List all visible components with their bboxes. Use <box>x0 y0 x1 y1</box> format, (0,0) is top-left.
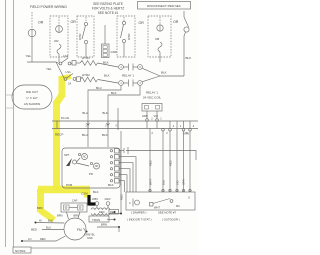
svg-text:RECP: RECP <box>55 133 63 137</box>
svg-text:BLK: BLK <box>108 183 114 187</box>
svg-text:BLU: BLU <box>83 111 88 115</box>
svg-text:VIO: VIO <box>154 114 158 118</box>
svg-text:RELAY 1: RELAY 1 <box>122 74 134 78</box>
svg-text:O: O <box>188 196 190 200</box>
wire to plug pin <box>117 108 119 130</box>
svg-text:208V: 208V <box>92 197 98 201</box>
svg-text:CAP: CAP <box>72 199 78 203</box>
svg-text:BLK: BLK <box>93 190 99 194</box>
fuse FU1 (L1 feed) <box>31 12 33 29</box>
svg-text:BLU: BLU <box>82 133 88 137</box>
svg-text:GRN: GRN <box>142 114 148 118</box>
svg-text:RED: RED <box>120 194 124 200</box>
svg-text:YEL: YEL <box>26 54 32 58</box>
svg-text:HTR1: HTR1 <box>82 56 90 60</box>
svg-text:BLK: BLK <box>104 74 110 78</box>
svg-text:RED: RED <box>40 237 46 241</box>
svg-text:1" X 1/2": 1" X 1/2" <box>26 96 38 100</box>
die cut note <box>12 85 52 109</box>
contact NC <box>78 153 80 155</box>
svg-text:BLK: BLK <box>186 56 192 60</box>
svg-text:GRN: GRN <box>183 132 189 136</box>
svg-text:RED: RED <box>99 210 105 214</box>
contact NO <box>90 162 92 164</box>
relay 1 contact row 1 <box>119 65 124 70</box>
svg-text:FM: FM <box>77 228 82 232</box>
svg-text:FOR VOLTS & HERTZ: FOR VOLTS & HERTZ <box>92 7 124 11</box>
motor ground GRN/YEL GND <box>86 231 88 233</box>
svg-text:PCB: PCB <box>66 183 72 187</box>
wire RED secondary <box>109 210 119 215</box>
wire highlighted yellow L1 circuit trace <box>38 76 90 220</box>
alternate box: fuse OR circuit breaker CB <box>50 16 68 57</box>
node split to LS2/LS1 <box>56 62 64 78</box>
svg-text:RED: RED <box>169 160 173 166</box>
svg-text:COM: COM <box>81 192 88 196</box>
svg-text:OR: OR <box>173 20 179 24</box>
notes box <box>13 247 31 253</box>
svg-text:YEL: YEL <box>46 67 52 71</box>
wire BLK tap <box>108 85 140 147</box>
svg-text:24 VDC COIL: 24 VDC COIL <box>143 96 162 100</box>
svg-text:HTR2: HTR2 <box>82 73 90 77</box>
svg-text:VIO: VIO <box>176 181 180 185</box>
svg-text:DISC: DISC <box>78 33 82 40</box>
bold wire to transformer common <box>89 195 96 206</box>
control board PCB <box>62 148 120 188</box>
svg-text:PR: PR <box>89 172 93 176</box>
svg-text:BLK: BLK <box>161 71 167 75</box>
svg-text:BLU: BLU <box>46 226 51 230</box>
svg-text:HI: HI <box>39 219 42 223</box>
svg-text:( DAMPER ): ( DAMPER ) <box>131 211 146 215</box>
svg-text:NOTES: NOTES <box>15 249 25 253</box>
svg-text:MED: MED <box>31 228 37 232</box>
plug pin chevrons <box>87 123 110 126</box>
page margin rule outer <box>5 0 7 247</box>
rotated wire labels <box>149 160 186 185</box>
control box (thermostat circuit) <box>126 192 195 210</box>
HACR breaker switch <box>183 11 185 17</box>
plug pin ticks <box>57 121 190 129</box>
svg-text:TRAN: TRAN <box>92 218 100 222</box>
wire L1 YEL horizontal <box>27 58 56 62</box>
svg-text:OR: OR <box>139 21 145 25</box>
capacitor CAP <box>61 203 87 212</box>
svg-text:LS1: LS1 <box>66 70 72 74</box>
svg-text:NC: NC <box>83 156 87 159</box>
motor lead MED BLU <box>42 229 64 231</box>
disconnect switch DISC (box 2) <box>77 16 94 57</box>
label box DISCONNECT PER NEC <box>138 2 191 10</box>
svg-text:RELAY 1: RELAY 1 <box>146 91 158 95</box>
svg-text:DISCONNECT PER NEC: DISCONNECT PER NEC <box>147 4 182 8</box>
svg-text:DISC: DISC <box>127 33 131 40</box>
page margin rule inner <box>13 0 15 247</box>
svg-text:GRN: GRN <box>182 179 186 185</box>
svg-text:C: C <box>129 201 131 205</box>
svg-text:MC: MC <box>176 204 180 208</box>
svg-text:SEE NOTE #7: SEE NOTE #7 <box>158 211 176 215</box>
svg-text:BRN: BRN <box>57 214 63 218</box>
svg-text:RED: RED <box>149 160 153 166</box>
svg-text:BLU: BLU <box>162 180 166 185</box>
svg-text:GND: GND <box>87 237 93 240</box>
svg-text:240V: 240V <box>105 197 111 201</box>
ground lug GND <box>104 25 106 44</box>
svg-text:WHT: WHT <box>149 179 153 185</box>
alternate box: circuit breaker CB <box>148 16 171 57</box>
plug pin numbers <box>85 117 195 136</box>
svg-text:BLK: BLK <box>103 61 109 65</box>
svg-text:( OUTDOOR ): ( OUTDOOR ) <box>162 218 180 222</box>
wires BRN capacitor to motor <box>67 212 69 219</box>
board terminal squares <box>110 149 119 184</box>
svg-text:OR: OR <box>38 21 44 25</box>
svg-text:BLU: BLU <box>96 86 102 90</box>
component C in control box <box>132 199 134 207</box>
fan motor FM <box>64 218 86 240</box>
dimension tick 36 <box>6 95 14 108</box>
svg-text:BRN: BRN <box>37 206 43 210</box>
switch MC in control box <box>150 203 154 207</box>
svg-text:SPT: SPT <box>64 153 70 157</box>
svg-text:SEE RATING PLATE: SEE RATING PLATE <box>93 2 123 6</box>
svg-text:LO: LO <box>28 237 31 241</box>
connector symbol at board <box>124 147 130 154</box>
svg-text:BRN: BRN <box>74 214 80 218</box>
svg-text:NO: NO <box>95 165 99 168</box>
svg-text:AS SHOWN: AS SHOWN <box>24 102 40 106</box>
svg-text:( INDOOR T-STAT ): ( INDOOR T-STAT ) <box>127 218 152 222</box>
svg-text:BLK: BLK <box>103 111 108 115</box>
board wires routed right <box>119 150 124 152</box>
svg-text:DIE CUT: DIE CUT <box>26 90 38 94</box>
motor lead LO RED <box>21 240 23 242</box>
svg-text:BLK: BLK <box>48 219 53 223</box>
wires to thermostat labels <box>114 211 116 213</box>
svg-text:PLUG: PLUG <box>61 116 70 120</box>
svg-text:CB: CB <box>155 37 159 41</box>
svg-text:FIELD POWER WIRING: FIELD POWER WIRING <box>30 5 67 9</box>
svg-text:LS2: LS2 <box>63 54 69 58</box>
svg-text:BLK: BLK <box>102 133 108 137</box>
wire BLU tap <box>88 85 121 147</box>
svg-text:SEE NOTE #1: SEE NOTE #1 <box>98 11 119 15</box>
svg-text:BLK: BLK <box>111 91 117 95</box>
svg-text:BRN: BRN <box>101 223 107 227</box>
svg-text:OR: OR <box>71 20 77 24</box>
harness verticals to control box <box>149 129 151 193</box>
svg-text:2A: 2A <box>68 82 71 86</box>
disconnect switch DISC (box 3) <box>117 16 135 57</box>
motor lead HI BLK <box>35 222 37 224</box>
svg-text:WHT: WHT <box>154 206 160 210</box>
